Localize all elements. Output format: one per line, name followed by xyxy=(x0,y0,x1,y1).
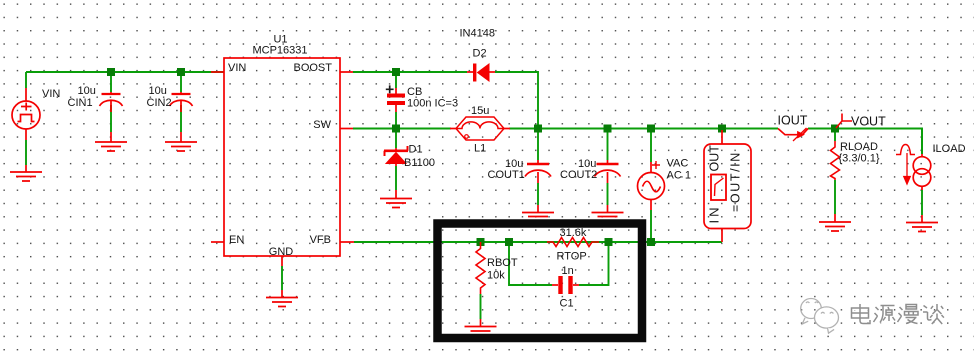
wire ILOAD top xyxy=(921,129,923,155)
capacitor CB xyxy=(395,88,397,94)
black highlight box xyxy=(438,224,643,339)
wire FB to OUT/IN block xyxy=(651,241,722,243)
svg-text:GND: GND xyxy=(269,246,294,258)
inductor L1 xyxy=(450,128,456,130)
svg-text:RBOT: RBOT xyxy=(487,257,518,269)
pin stub VFB xyxy=(340,241,354,243)
svg-text:VAC: VAC xyxy=(667,158,689,170)
IOUT probe xyxy=(778,129,798,135)
resistor RTOP xyxy=(547,238,599,247)
svg-text:CIN1: CIN1 xyxy=(68,97,93,109)
svg-text:{3.3/0.1}: {3.3/0.1} xyxy=(839,153,880,165)
capacitor CIN1 xyxy=(110,92,112,94)
wire FB row xyxy=(354,241,651,243)
node CIN1 top junction xyxy=(107,68,115,76)
node OUT-probe top junction xyxy=(718,125,726,133)
svg-text:L1: L1 xyxy=(474,143,486,155)
red components xyxy=(10,58,938,336)
wire ILOAD bottom xyxy=(921,190,923,215)
wire C1 left drop xyxy=(509,242,552,285)
svg-text:IN: IN xyxy=(707,205,722,224)
svg-text:VIN: VIN xyxy=(42,88,60,100)
svg-text:1n: 1n xyxy=(562,265,574,277)
svg-text:CB: CB xyxy=(407,86,422,98)
svg-text:31.6k: 31.6k xyxy=(560,227,587,239)
wire VIN source vertical top xyxy=(25,72,27,88)
ground (U1 GND) xyxy=(281,290,283,298)
wire D1 vertical xyxy=(395,129,397,149)
svg-text:10u: 10u xyxy=(149,85,167,97)
svg-text:AC 1: AC 1 xyxy=(667,170,691,182)
wire CB vertical xyxy=(395,72,397,88)
svg-text:B1100: B1100 xyxy=(404,157,435,169)
watermark logo xyxy=(801,299,839,334)
ILOAD source xyxy=(913,157,931,175)
capacitor CIN2 xyxy=(180,92,182,94)
VIN source V1 xyxy=(12,101,40,129)
wire CIN1 vertical xyxy=(110,72,112,92)
svg-text:OUT: OUT xyxy=(708,145,722,172)
node CIN2 top junction xyxy=(177,68,185,76)
svg-text:RLOAD: RLOAD xyxy=(840,141,878,153)
node VAC bottom junction xyxy=(647,238,655,246)
wire L1 right to corner xyxy=(509,128,538,130)
svg-text:VOUT: VOUT xyxy=(851,115,886,129)
resistor RBOT xyxy=(476,242,485,294)
svg-text:RTOP: RTOP xyxy=(557,251,587,263)
node VOUT-rail/COUT1 junction xyxy=(534,125,542,133)
svg-text:ILOAD: ILOAD xyxy=(933,143,966,155)
wire VAC top xyxy=(650,129,652,163)
svg-text:100n IC=3: 100n IC=3 xyxy=(407,98,458,110)
ground (COUT2) xyxy=(607,205,609,213)
svg-text:MCP16331: MCP16331 xyxy=(252,45,307,57)
svg-text:CIN2: CIN2 xyxy=(147,97,172,109)
wire BOOST row xyxy=(353,71,467,73)
svg-text:=OUT/IN: =OUT/IN xyxy=(729,151,743,212)
wire output row xyxy=(538,128,778,130)
svg-text:SW: SW xyxy=(313,119,331,131)
svg-text:COUT2: COUT2 xyxy=(560,169,597,181)
wire CIN2 vertical xyxy=(180,72,182,92)
svg-text:D1: D1 xyxy=(409,144,423,156)
ground (RLOAD) xyxy=(834,214,836,222)
svg-text:BOOST: BOOST xyxy=(293,62,332,74)
wire COUT1 vertical xyxy=(537,129,539,161)
wire RBOT bottom xyxy=(480,294,482,319)
wire VIN source vertical bottom xyxy=(25,140,27,165)
VAC source xyxy=(638,173,665,200)
svg-text:C1: C1 xyxy=(560,298,574,310)
node COUT2 junction xyxy=(604,125,612,133)
pin stub BOOST xyxy=(340,71,353,73)
svg-text:IN4148: IN4148 xyxy=(460,28,495,40)
wire SW row xyxy=(353,128,451,130)
ground (CIN1) xyxy=(110,132,112,142)
svg-text:COUT1: COUT1 xyxy=(488,169,525,181)
ground (VIN) xyxy=(25,165,27,172)
capacitor C1 xyxy=(552,284,558,286)
svg-text:VIN: VIN xyxy=(228,62,246,74)
wires green xyxy=(26,72,922,319)
OUT/IN block xyxy=(704,144,751,229)
node VAC top junction xyxy=(647,125,655,133)
pin stub VIN xyxy=(211,71,224,73)
wire COUT2 vertical xyxy=(607,129,609,161)
node SW/CB/D1 junction xyxy=(392,125,400,133)
CB plus polarity mark xyxy=(386,85,394,93)
U1 box MCP16331 xyxy=(224,58,340,256)
pin stub GND xyxy=(281,256,283,266)
svg-text:D2: D2 xyxy=(473,48,487,60)
node RTOP-left/C1 junction xyxy=(505,238,513,246)
wire VAC bottom xyxy=(650,210,652,242)
capacitor COUT2 xyxy=(607,160,609,164)
wire C1 right drop xyxy=(579,242,609,285)
diode D2 IN4148 xyxy=(467,71,473,73)
watermark text 电源漫谈 xyxy=(852,304,946,325)
pin stub EN xyxy=(211,241,224,243)
ground (ILOAD) xyxy=(921,215,923,223)
VOUT marker xyxy=(836,114,852,129)
node VOUT junction xyxy=(831,125,839,133)
svg-text:EN: EN xyxy=(229,234,244,246)
resistor RLOAD xyxy=(831,141,840,180)
node RTOP-right/C1 junction xyxy=(605,238,613,246)
diode D1 B1100 schottky xyxy=(395,148,397,150)
capacitor COUT1 xyxy=(537,160,539,164)
ground (RBOT) xyxy=(480,319,482,327)
node FB/RBOT junction xyxy=(477,238,485,246)
svg-text:15u: 15u xyxy=(471,105,489,117)
node CB/BOOST junction xyxy=(392,68,400,76)
svg-text:VFB: VFB xyxy=(310,234,331,246)
ground (D1) xyxy=(395,190,397,199)
svg-text:10k: 10k xyxy=(487,270,505,282)
wire RLOAD bottom xyxy=(834,129,836,142)
svg-text:IOUT: IOUT xyxy=(778,114,808,128)
pin stub SW xyxy=(340,128,353,130)
wire VIN row xyxy=(26,71,224,73)
wire GND pin U1 xyxy=(281,266,283,290)
svg-text:10u: 10u xyxy=(78,85,96,97)
ground (COUT1) xyxy=(537,205,539,213)
ground (CIN2) xyxy=(180,132,182,142)
